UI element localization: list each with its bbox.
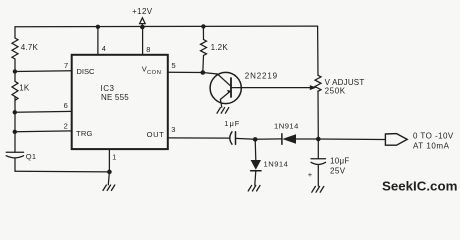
wire R2 to node B bbox=[14, 97, 16, 113]
svg-text:DISC: DISC bbox=[76, 67, 95, 76]
svg-text:1.2K: 1.2K bbox=[211, 43, 229, 52]
resistor R3 1.2K bbox=[201, 40, 207, 56]
svg-text:1μF: 1μF bbox=[224, 119, 240, 128]
capacitor Q1 bbox=[6, 152, 23, 158]
svg-text:OUT: OUT bbox=[147, 130, 165, 139]
wire node I to capacitor C2 bbox=[317, 139, 319, 159]
svg-text:25V: 25V bbox=[330, 167, 346, 176]
svg-text:1: 1 bbox=[112, 152, 116, 161]
wire R1 to node A bbox=[14, 59, 16, 72]
svg-text:1N914: 1N914 bbox=[264, 159, 289, 168]
wire Q1 to bottom rail bbox=[14, 159, 16, 172]
node H junction top rail bbox=[201, 24, 205, 28]
svg-text:5: 5 bbox=[172, 61, 176, 70]
svg-text:CON: CON bbox=[147, 70, 161, 76]
node J junction bbox=[253, 137, 258, 142]
potentiometer R4 V ADJUST 250K bbox=[315, 75, 321, 91]
wire 1.2K to node G bbox=[202, 56, 205, 73]
node G junction base/1.2K bbox=[201, 70, 206, 75]
svg-text:+: + bbox=[308, 170, 313, 179]
wire pin 3 output bbox=[168, 137, 229, 139]
svg-text:NE 555: NE 555 bbox=[101, 93, 129, 102]
svg-text:3: 3 bbox=[171, 125, 175, 134]
wire pin 5 bbox=[168, 71, 203, 73]
svg-text:+12V: +12V bbox=[132, 7, 153, 16]
wire bottom-left rail bbox=[15, 170, 109, 173]
svg-text:2: 2 bbox=[64, 121, 68, 130]
wire pin 4 bbox=[97, 27, 99, 55]
svg-text:AT 10mA: AT 10mA bbox=[413, 142, 450, 151]
svg-text:4: 4 bbox=[102, 44, 106, 53]
svg-text:Q1: Q1 bbox=[26, 152, 37, 161]
svg-text:2N2219: 2N2219 bbox=[245, 71, 278, 80]
wire pin 1 bbox=[108, 149, 110, 172]
wire +12V stem bbox=[141, 24, 143, 27]
svg-text:IC3: IC3 bbox=[101, 84, 115, 93]
svg-text:SeekIC.com: SeekIC.com bbox=[382, 179, 457, 194]
wire node D to ground bbox=[108, 172, 109, 185]
svg-text:0 TO -10V: 0 TO -10V bbox=[413, 132, 454, 141]
wire node J to diode D1 bbox=[255, 138, 282, 140]
wire pin 7 bbox=[15, 70, 72, 73]
wire node J to diode D2 bbox=[254, 139, 257, 160]
svg-text:1K: 1K bbox=[19, 84, 30, 93]
transistor Q2 2N2219 bbox=[203, 72, 241, 107]
svg-text:TRG: TRG bbox=[76, 129, 93, 138]
diode D2 1N914 shunt bbox=[251, 160, 261, 171]
wire node C to capacitor Q1 bbox=[14, 132, 16, 152]
node C junction pin2 bbox=[13, 130, 17, 134]
wire D1 to node I bbox=[296, 138, 318, 140]
ground G4 bbox=[312, 186, 324, 192]
op-amp U1 NE555 box bbox=[72, 55, 168, 149]
node E junction pin8 rail bbox=[140, 25, 145, 30]
wire pin 2 bbox=[15, 130, 72, 133]
node F junction pin4 rail bbox=[96, 25, 100, 29]
node D junction pin1/ground bbox=[107, 170, 112, 175]
svg-text:1N914: 1N914 bbox=[274, 122, 299, 131]
ground G1 bbox=[103, 185, 115, 190]
svg-text:250K: 250K bbox=[325, 86, 346, 95]
wire D2 to ground bbox=[255, 171, 256, 185]
svg-text:8: 8 bbox=[146, 45, 150, 54]
ground G2 transistor emitter bbox=[217, 108, 229, 114]
wire C2 to ground bbox=[317, 165, 319, 186]
svg-text:4.7K: 4.7K bbox=[21, 43, 39, 52]
wire 1.2K top stub bbox=[202, 26, 204, 39]
wire pot to node I bbox=[317, 91, 319, 139]
wire top rail +12V bbox=[15, 25, 318, 28]
capacitor C1 1uF bbox=[230, 132, 236, 144]
power +12V arrow symbol bbox=[140, 18, 146, 24]
node A junction pin7 bbox=[13, 69, 17, 73]
wire pin 6 bbox=[15, 110, 72, 113]
ground G3 bbox=[248, 185, 260, 191]
wire pin 8 bbox=[142, 27, 144, 55]
wire base to potentiometer wiper bbox=[231, 87, 311, 89]
resistor R1 4.7K bbox=[12, 38, 18, 59]
label VCON bbox=[142, 64, 162, 76]
svg-text:6: 6 bbox=[64, 101, 68, 110]
svg-text:7: 7 bbox=[64, 61, 68, 70]
wiper arrowhead bbox=[310, 85, 317, 90]
node I junction bbox=[316, 137, 321, 142]
wire node B to node C bbox=[14, 112, 16, 132]
wire R2 top stub bbox=[14, 72, 16, 82]
resistor R2 1K bbox=[12, 81, 18, 100]
wire C1 to node J bbox=[236, 137, 256, 140]
diode D1 1N914 series bbox=[282, 134, 296, 144]
capacitor C2 10uF 25V bbox=[311, 159, 326, 165]
wire right rail down from top bbox=[317, 26, 319, 75]
wire left rail top segment bbox=[14, 27, 16, 38]
wire node I to output bbox=[318, 138, 385, 141]
node B junction pin6 bbox=[13, 110, 17, 114]
output arrow connector bbox=[385, 134, 407, 146]
svg-text:10μF: 10μF bbox=[330, 157, 350, 166]
